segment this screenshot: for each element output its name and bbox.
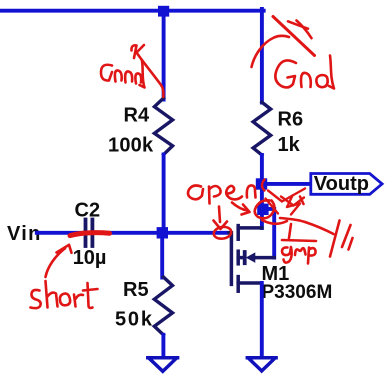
transistor M1 bulk stub xyxy=(238,256,243,260)
node output junction xyxy=(256,178,267,189)
wire left branch down to R4 xyxy=(162,9,166,100)
transistor M1 bulk arrow xyxy=(247,253,255,262)
annotation arrow short to C2 xyxy=(46,245,72,277)
svg-text:C2: C2 xyxy=(75,200,101,222)
wire top rail xyxy=(0,9,264,13)
node Vin junction xyxy=(157,227,168,238)
transistor M1 channel segment bottom xyxy=(236,277,240,292)
svg-text:Voutp: Voutp xyxy=(314,173,369,195)
node top junction xyxy=(158,6,169,17)
wire Vin to C2 xyxy=(37,231,83,235)
svg-text:100k: 100k xyxy=(108,135,154,157)
resistor R6 xyxy=(253,102,271,155)
transistor M1 bulk bar xyxy=(243,252,247,263)
annotation arrow down to gate joint xyxy=(214,207,228,230)
wire Vin node down to R5 xyxy=(160,239,164,278)
annotation Gnd right xyxy=(275,60,296,87)
wire node2 down to M1 source stub xyxy=(260,214,264,228)
wire R4 bottom to Vin node xyxy=(162,155,166,229)
annotation slash short 1 xyxy=(288,21,308,28)
wire M1 source stub down to ground xyxy=(260,283,264,357)
capacitor C2 plate left xyxy=(84,220,88,247)
wire Vin node to M1 gate xyxy=(168,231,229,235)
wire R6 bottom to Voutp node xyxy=(260,155,264,205)
svg-text:R4: R4 xyxy=(124,105,150,127)
wire C2 to Vin node xyxy=(95,231,157,235)
annotation slashes right xyxy=(330,221,340,257)
capacitor C2 plate right xyxy=(91,220,95,247)
transistor M1 channel segment top xyxy=(236,226,240,240)
annotation open text xyxy=(188,186,203,200)
svg-text:10µ: 10µ xyxy=(73,247,107,269)
annotation arrow to node2 xyxy=(232,203,250,215)
resistor R5 xyxy=(154,277,172,335)
wire R5 bottom to ground xyxy=(161,335,165,357)
svg-text:P3306M: P3306M xyxy=(262,282,333,303)
svg-text:R5: R5 xyxy=(123,279,149,301)
transistor M1 source stub xyxy=(238,281,262,285)
wire node to Voutp flag xyxy=(266,182,311,186)
svg-text:R6: R6 xyxy=(278,108,304,130)
annotation short text xyxy=(31,290,41,308)
annotation curve to top-right corner xyxy=(252,36,290,67)
annotation Gnd left xyxy=(101,65,112,81)
red annotations xyxy=(31,17,353,309)
annotation scribble near node2 xyxy=(262,180,265,191)
resistor R4 xyxy=(154,98,172,155)
annotation leader to R4 wire xyxy=(137,53,164,98)
wire right branch down to R6 xyxy=(260,9,264,103)
ground right xyxy=(247,358,276,371)
annotation short stroke over C2 xyxy=(70,233,110,236)
transistor M1 bulk line xyxy=(255,256,274,260)
transistor M1 channel segment middle xyxy=(236,251,240,264)
transistor M1 gate bar xyxy=(229,233,231,285)
port flag Voutp xyxy=(311,174,382,195)
annotation slash long xyxy=(273,17,315,56)
ground left xyxy=(148,358,178,372)
node source junction xyxy=(257,204,268,215)
svg-text:1k: 1k xyxy=(278,134,301,156)
svg-text:50k: 50k xyxy=(115,309,154,331)
annotation ellipse open circle xyxy=(213,226,232,240)
annotation k tick top-left xyxy=(131,45,144,58)
annotation slash short 2 xyxy=(297,21,312,39)
annotation fraction 1/gmp xyxy=(289,224,291,238)
transistor M1 drain stub xyxy=(238,226,262,230)
wire node2 to bulk: top segment xyxy=(266,209,274,258)
